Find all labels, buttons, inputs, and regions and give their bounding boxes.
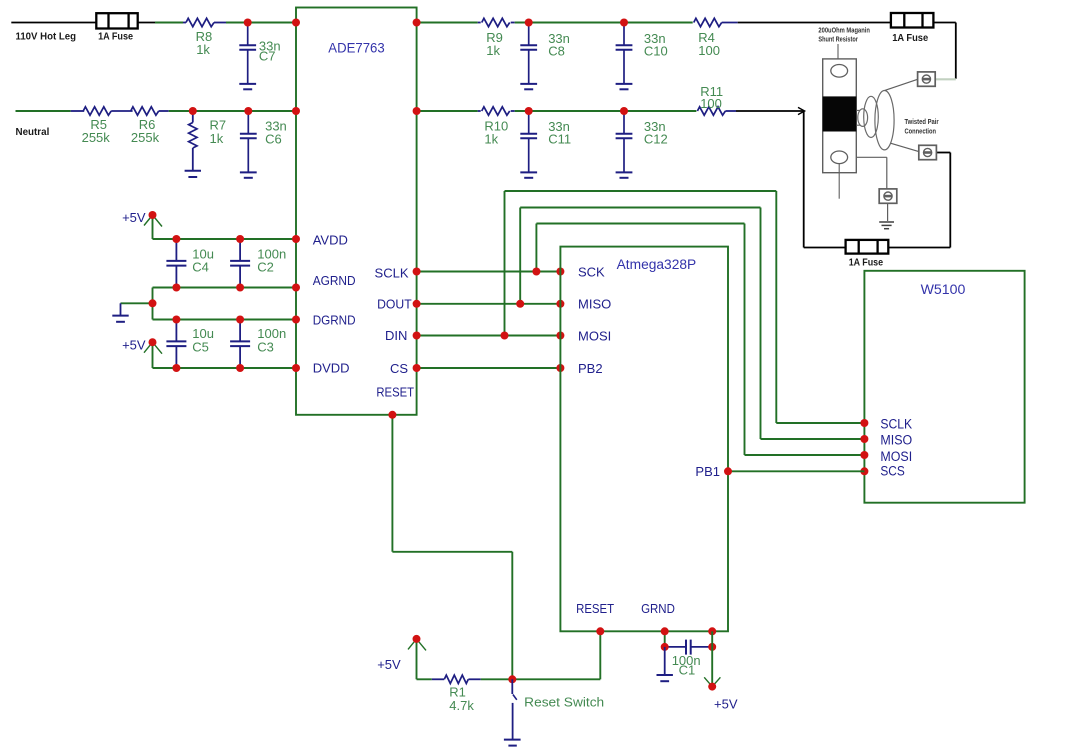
resistor R8 (183, 22, 186, 24)
shunt black band (823, 96, 857, 131)
node C1 right junction (708, 643, 716, 651)
node Atmega aux pin (708, 627, 716, 635)
svg-text:C2: C2 (257, 259, 274, 274)
svg-text:1k: 1k (486, 43, 500, 58)
svg-text:GRND: GRND (641, 601, 675, 616)
resistor R6 (131, 107, 159, 115)
shunt top hole (831, 65, 848, 78)
wire R11 to shunt loop (736, 110, 803, 112)
node C12 junction (620, 107, 628, 115)
wire R4 to fuse F2 (738, 22, 891, 24)
wire +5V to R1 (417, 678, 432, 680)
CT coil small cylinder lines (856, 109, 860, 111)
wire R8 to ADE7763 AC input (226, 22, 296, 24)
op-amp U1 ADE7763 IC box (296, 8, 417, 415)
wire R5 to R6 (111, 110, 132, 112)
leader line from shunt bottom hole (838, 164, 840, 199)
resistor R7 to ground (192, 111, 194, 123)
resistor R9 (478, 22, 481, 24)
svg-text:SCLK: SCLK (880, 417, 912, 432)
fuse F1 1A top-left (96, 13, 137, 28)
svg-text:4.7k: 4.7k (449, 698, 474, 713)
svg-text:C1: C1 (679, 663, 696, 678)
ground analog/digital (120, 303, 122, 315)
fuse F3 1A bottom (846, 240, 889, 254)
node C8 junction (525, 19, 533, 27)
svg-text:1A Fuse: 1A Fuse (849, 257, 884, 269)
node DGRND junctions (172, 316, 180, 324)
ground C1 (664, 647, 666, 675)
wire ADE RESET to reset switch node (391, 415, 393, 552)
ground R7 (185, 170, 201, 172)
wire R10 to C11/C12/R11 (515, 110, 697, 112)
wire DVDD rail (153, 367, 297, 369)
node PB2 junctions (413, 364, 421, 372)
svg-text:1k: 1k (210, 131, 224, 146)
svg-text:AGRND: AGRND (313, 273, 356, 288)
svg-text:DVDD: DVDD (313, 361, 350, 376)
svg-text:Neutral: Neutral (16, 126, 50, 138)
svg-text:ADE7763: ADE7763 (328, 41, 384, 56)
resistor R11 (697, 107, 725, 115)
earth ground symbol (879, 221, 894, 223)
svg-text:MOSI: MOSI (880, 449, 912, 464)
node ADE RESET pin (388, 411, 396, 419)
wire DGRND rail (153, 319, 297, 321)
wire coil to lower terminal (891, 143, 919, 151)
wire MISO tap to W5100 MISO (519, 208, 521, 304)
svg-text:+5V: +5V (122, 338, 146, 353)
op-amp U3 W5100 IC box (864, 271, 1024, 503)
svg-text:R7: R7 (210, 117, 227, 132)
wire PB1 to W5100 SCS (728, 470, 864, 472)
svg-text:1k: 1k (196, 42, 210, 57)
svg-text:SCS: SCS (880, 464, 904, 479)
capacitor C7 (247, 23, 249, 46)
wire ground tap (121, 302, 153, 304)
wire coil to upper terminal (885, 79, 918, 90)
node hot at ADE left edge (292, 19, 300, 27)
svg-text:C11: C11 (548, 132, 571, 147)
svg-text:100: 100 (700, 96, 722, 111)
svg-text:MISO: MISO (578, 297, 611, 312)
wire MOSI tap to W5100 SCLK (504, 191, 506, 336)
power +5V reset symbol (416, 639, 418, 679)
svg-text:C7: C7 (259, 49, 276, 64)
power +5V analog symbol (152, 215, 154, 239)
capacitor C12 (623, 111, 625, 134)
svg-text:W5100: W5100 (921, 282, 966, 297)
capacitor C6 (247, 111, 249, 134)
wire shunt loop left vertical (803, 111, 805, 248)
wire R6 to ADE7763 neutral input (169, 110, 296, 112)
svg-text:+5V: +5V (377, 657, 401, 672)
svg-text:RESET: RESET (376, 384, 414, 399)
shunt bottom hole (831, 151, 848, 164)
svg-text:SCLK: SCLK (375, 265, 409, 280)
svg-text:Shunt Resistor: Shunt Resistor (818, 35, 858, 44)
svg-text:SCK: SCK (578, 265, 605, 280)
node Atmega GRND pin (661, 627, 669, 635)
node AVDD junctions (172, 235, 180, 243)
transistor U2 Atmega328P IC box (560, 247, 728, 632)
svg-text:DOUT: DOUT (377, 296, 412, 311)
svg-text:C5: C5 (192, 339, 209, 354)
svg-text:RESET: RESET (576, 601, 614, 616)
CT coil ellipse small (858, 109, 868, 127)
wire middle terminal to earth ground (887, 204, 889, 222)
svg-text:Connection: Connection (905, 126, 937, 135)
node C11 junction (525, 107, 533, 115)
wire fuse F1 to R8 (138, 22, 155, 24)
svg-text:1A Fuse: 1A Fuse (98, 31, 133, 43)
arrowhead at shunt loop corner (798, 107, 805, 114)
node PB1 pin (724, 467, 732, 475)
node ADE right edge hot (413, 19, 421, 27)
resistor R5 (71, 110, 85, 112)
wire AGRND rail (153, 287, 297, 289)
capacitor C1 (665, 646, 686, 648)
svg-text:CS: CS (390, 361, 408, 376)
wire fuse F3 to lower terminal (888, 247, 950, 249)
CT coil ellipse large (875, 91, 894, 150)
wire ADE7763 to R9 (417, 22, 478, 24)
terminal lower (919, 145, 937, 159)
svg-text:100: 100 (698, 43, 720, 58)
power +5V down arrow (711, 631, 713, 686)
capacitor C8 (528, 23, 530, 46)
wire R9 to C8/C10/R4 (515, 22, 693, 24)
svg-text:200uOhm Maganin: 200uOhm Maganin (818, 25, 870, 34)
node AGRND junctions (172, 284, 180, 292)
svg-text:C12: C12 (644, 132, 668, 147)
wire fuse F2 to upper terminal (933, 22, 955, 24)
node neutral/C6 junction (244, 107, 252, 115)
svg-text:110V Hot Leg: 110V Hot Leg (16, 30, 77, 42)
wire AVDD rail (153, 238, 297, 240)
node C1 left junction (661, 643, 669, 651)
node MOSI junctions (413, 332, 421, 340)
node C10 junction (620, 19, 628, 27)
switch SW1 reset switch (511, 679, 513, 694)
node ADE right edge neutral (413, 107, 421, 115)
node neutral/R7 junction (189, 107, 197, 115)
svg-text:C10: C10 (644, 44, 668, 59)
svg-text:PB1: PB1 (695, 464, 720, 479)
svg-text:C3: C3 (257, 339, 274, 354)
node SCLK junctions (413, 268, 421, 276)
wire DOUT to MISO (417, 303, 561, 305)
resistor R10 (478, 110, 481, 112)
node W5100 pin junctions (860, 419, 868, 427)
wire CS to PB2 (417, 367, 561, 369)
CT coil ellipse middle (864, 96, 879, 137)
capacitor C5 (175, 320, 177, 342)
svg-text:Reset Switch: Reset Switch (524, 694, 604, 709)
node ground tap junction (149, 299, 157, 307)
svg-text:+5V: +5V (714, 697, 738, 712)
terminal middle (879, 189, 897, 203)
svg-text:DGRND: DGRND (313, 313, 356, 328)
svg-text:PB2: PB2 (578, 361, 603, 376)
node neutral at ADE left edge (292, 107, 300, 115)
svg-text:MOSI: MOSI (578, 328, 611, 343)
terminal upper (918, 72, 936, 86)
node hot/C7 junction (244, 19, 252, 27)
svg-text:+5V: +5V (122, 210, 146, 225)
wire reset node to Atmega RESET (512, 678, 600, 680)
capacitor C4 (175, 239, 177, 261)
svg-text:MISO: MISO (880, 432, 912, 447)
wire neutral input (16, 110, 71, 112)
svg-text:Twisted Pair: Twisted Pair (905, 117, 939, 126)
ground reset switch (504, 739, 521, 741)
power +5V digital symbol (152, 342, 154, 368)
svg-text:DIN: DIN (385, 328, 407, 343)
wire SCLK to SCK (417, 271, 561, 273)
node Atmega RESET pin (596, 627, 604, 635)
wire stub to upper terminal (935, 78, 956, 80)
wire GRND down (664, 631, 666, 647)
svg-text:1A Fuse: 1A Fuse (892, 32, 928, 44)
wire to fuse F3 (804, 247, 846, 249)
svg-text:C4: C4 (192, 259, 209, 274)
leader line to shunt top (837, 44, 839, 65)
fuse F2 1A top-right (891, 13, 934, 28)
resistor R4 (694, 18, 722, 26)
wire shunt to middle terminal (856, 156, 887, 158)
node MISO junctions (413, 300, 421, 308)
svg-text:C8: C8 (548, 44, 565, 59)
wire SCLK tap to W5100 MOSI (535, 224, 537, 272)
capacitor C3 (239, 320, 241, 342)
svg-text:1k: 1k (484, 132, 498, 147)
capacitor C10 (623, 23, 625, 46)
svg-text:255k: 255k (82, 130, 111, 145)
capacitor C2 (239, 239, 241, 261)
wire ADE7763 to R10 (417, 110, 478, 112)
wire DIN to MOSI (417, 335, 561, 337)
capacitor C11 (528, 111, 530, 134)
wire R1 to reset node (481, 678, 513, 680)
shunt resistor body (823, 59, 857, 173)
node DVDD junctions (172, 364, 180, 372)
resistor R1 (432, 678, 444, 680)
wire 110V hot leg input (11, 22, 96, 24)
svg-text:AVDD: AVDD (313, 232, 348, 247)
svg-text:Atmega328P: Atmega328P (617, 257, 697, 272)
node reset junction (508, 675, 516, 683)
svg-text:255k: 255k (131, 130, 160, 145)
svg-text:C6: C6 (265, 132, 282, 147)
